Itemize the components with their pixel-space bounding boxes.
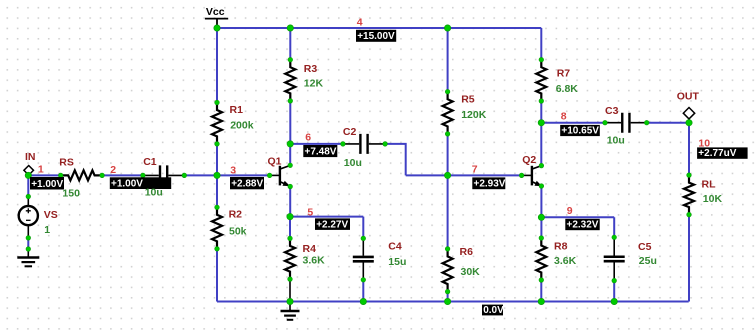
svg-text:RL: RL — [702, 178, 717, 190]
svg-text:50k: 50k — [229, 225, 247, 237]
svg-text:+2.27V: +2.27V — [316, 219, 348, 230]
svg-text:9: 9 — [567, 205, 573, 217]
svg-text:R4: R4 — [303, 243, 317, 255]
svg-text:10u: 10u — [344, 157, 362, 169]
svg-text:10u: 10u — [607, 134, 625, 146]
svg-text:+10.65V: +10.65V — [561, 126, 599, 137]
svg-text:30K: 30K — [461, 266, 481, 278]
svg-text:Vcc: Vcc — [206, 6, 225, 18]
svg-text:R2: R2 — [229, 208, 243, 220]
svg-text:OUT: OUT — [677, 90, 700, 102]
svg-text:8: 8 — [561, 111, 567, 123]
svg-text:+15.00V: +15.00V — [357, 31, 395, 42]
svg-text:VS: VS — [44, 209, 58, 221]
svg-text:C1: C1 — [143, 156, 157, 168]
svg-text:+2.32V: +2.32V — [567, 220, 599, 231]
svg-text:10: 10 — [698, 138, 710, 150]
svg-text:RS: RS — [59, 156, 74, 168]
svg-text:0.0V: 0.0V — [483, 305, 504, 316]
svg-text:2: 2 — [110, 164, 116, 176]
svg-text:1: 1 — [38, 164, 44, 176]
svg-text:10K: 10K — [703, 193, 723, 205]
svg-text:+1.00V: +1.00V — [111, 178, 143, 189]
svg-text:R6: R6 — [460, 246, 474, 258]
svg-text:5: 5 — [307, 206, 313, 218]
svg-text:15u: 15u — [388, 256, 406, 268]
svg-text:3: 3 — [230, 164, 236, 176]
svg-text:10u: 10u — [145, 187, 163, 199]
svg-text:1: 1 — [44, 224, 50, 236]
svg-text:R5: R5 — [461, 93, 475, 105]
svg-text:R7: R7 — [557, 67, 571, 79]
svg-text:6.8K: 6.8K — [556, 83, 579, 95]
svg-text:12K: 12K — [304, 78, 324, 90]
svg-text:R1: R1 — [230, 104, 244, 116]
svg-text:C3: C3 — [605, 105, 619, 117]
svg-text:C5: C5 — [638, 241, 652, 253]
svg-text:3.6K: 3.6K — [554, 255, 577, 267]
svg-text:+7.48V: +7.48V — [305, 147, 337, 158]
svg-text:+2.77uV: +2.77uV — [698, 148, 736, 159]
svg-text:R3: R3 — [304, 63, 318, 75]
svg-text:7: 7 — [472, 164, 478, 176]
svg-text:Q1: Q1 — [268, 156, 282, 168]
svg-text:+2.88V: +2.88V — [231, 179, 263, 190]
svg-text:4: 4 — [357, 17, 363, 29]
svg-text:R8: R8 — [554, 240, 568, 252]
svg-text:120K: 120K — [461, 109, 487, 121]
svg-text:IN: IN — [25, 151, 36, 163]
svg-text:+1.00V: +1.00V — [31, 179, 63, 190]
svg-text:3.6K: 3.6K — [303, 254, 326, 266]
svg-text:200k: 200k — [230, 120, 254, 132]
svg-text:Q2: Q2 — [522, 154, 536, 166]
svg-text:6: 6 — [305, 131, 311, 143]
svg-text:C4: C4 — [388, 241, 402, 253]
svg-text:+2.93V: +2.93V — [474, 179, 506, 190]
svg-text:C2: C2 — [343, 126, 357, 138]
svg-text:25u: 25u — [639, 255, 657, 267]
svg-text:150: 150 — [62, 187, 80, 199]
